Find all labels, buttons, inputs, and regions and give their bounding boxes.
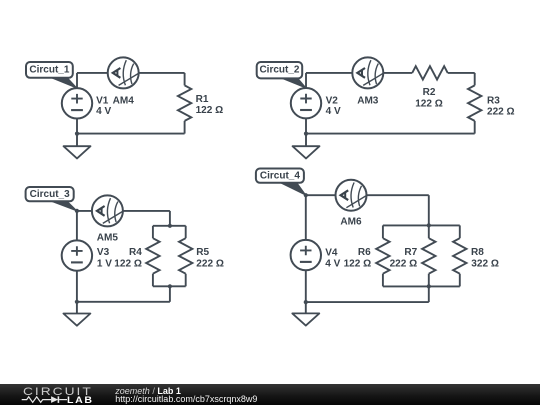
svg-text:Circut_1: Circut_1 [29,65,69,76]
svg-text:R1: R1 [196,94,209,105]
svg-text:AM5: AM5 [97,233,119,244]
svg-text:AM4: AM4 [113,95,135,106]
svg-text:Circut_3: Circut_3 [30,189,70,200]
svg-text:R5: R5 [196,247,209,258]
svg-text:222 Ω: 222 Ω [390,258,418,269]
svg-text:322 Ω: 322 Ω [471,259,499,270]
svg-text:V1: V1 [96,95,109,106]
svg-text:R4: R4 [129,247,142,258]
svg-text:R3: R3 [487,95,500,106]
svg-text:222 Ω: 222 Ω [196,258,224,269]
svg-text:V2: V2 [326,95,339,106]
svg-text:1 V: 1 V [97,258,112,269]
svg-text:Circut_2: Circut_2 [259,65,299,76]
svg-text:4 V: 4 V [326,106,341,117]
svg-text:R2: R2 [423,87,436,98]
svg-text:R7: R7 [404,247,417,258]
svg-text:122 Ω: 122 Ω [196,105,224,116]
svg-text:4 V: 4 V [325,258,340,269]
svg-text:AM3: AM3 [357,95,379,106]
svg-text:122 Ω: 122 Ω [114,258,142,269]
svg-text:R8: R8 [471,247,484,258]
svg-text:AM6: AM6 [340,216,362,227]
svg-text:222 Ω: 222 Ω [487,106,515,117]
svg-text:R6: R6 [358,247,371,258]
svg-text:122 Ω: 122 Ω [344,258,372,269]
svg-text:Circut_4: Circut_4 [260,170,300,181]
svg-text:V4: V4 [325,247,338,258]
svg-text:122 Ω: 122 Ω [415,99,443,110]
svg-text:V3: V3 [97,247,110,258]
svg-text:4 V: 4 V [96,106,111,117]
